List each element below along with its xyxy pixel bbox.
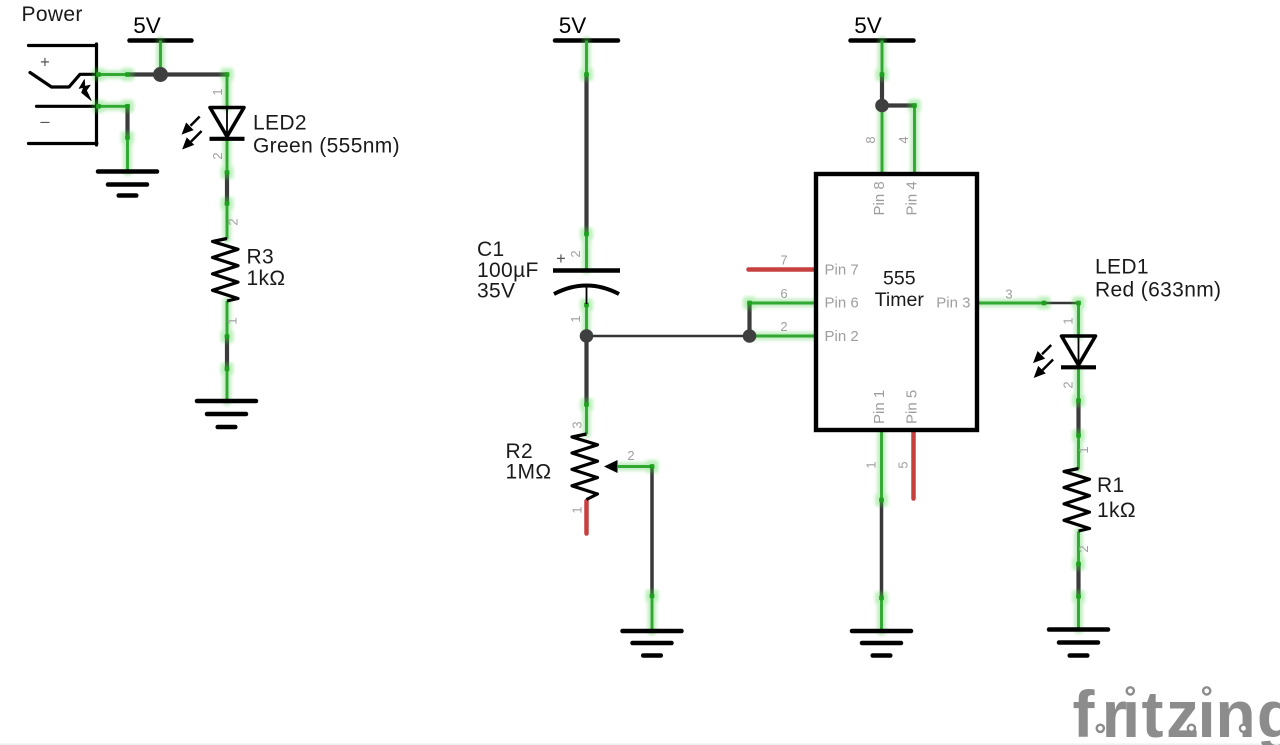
svg-text:4: 4 (896, 136, 911, 143)
svg-text:6: 6 (780, 286, 787, 301)
svg-text:LED1: LED1 (1095, 256, 1149, 279)
svg-text:2: 2 (226, 218, 241, 225)
svg-text:–: – (40, 113, 50, 131)
svg-text:8: 8 (863, 136, 878, 143)
svg-text:1kΩ: 1kΩ (247, 267, 286, 290)
svg-text:5V: 5V (559, 13, 587, 38)
svg-text:Red (633nm): Red (633nm) (1095, 279, 1221, 302)
svg-text:5V: 5V (133, 13, 161, 38)
svg-text:Timer: Timer (875, 289, 925, 311)
svg-text:5: 5 (896, 461, 911, 468)
svg-text:1: 1 (1076, 446, 1091, 453)
svg-text:Pin 1: Pin 1 (871, 390, 888, 424)
svg-text:Green (555nm): Green (555nm) (253, 135, 400, 158)
svg-text:f: f (1073, 677, 1096, 745)
svg-text:R1: R1 (1097, 474, 1125, 497)
svg-text:R3: R3 (247, 246, 275, 269)
svg-text:+: + (556, 250, 566, 268)
svg-text:Power: Power (22, 3, 83, 26)
svg-text:Pin 3: Pin 3 (936, 295, 970, 312)
svg-text:35V: 35V (477, 280, 515, 303)
svg-text:1: 1 (568, 315, 583, 322)
svg-text:2: 2 (780, 319, 787, 334)
svg-text:2: 2 (1061, 381, 1076, 388)
svg-text:555: 555 (883, 268, 916, 290)
svg-text:Pin 6: Pin 6 (825, 295, 859, 312)
svg-text:2: 2 (568, 250, 583, 257)
svg-text:5V: 5V (854, 13, 882, 38)
svg-text:3: 3 (570, 421, 585, 428)
svg-text:LED2: LED2 (253, 112, 307, 135)
svg-text:z: z (1166, 677, 1199, 745)
svg-text:Pin 8: Pin 8 (871, 181, 888, 215)
svg-text:1: 1 (1061, 317, 1076, 324)
svg-text:7: 7 (780, 253, 787, 268)
svg-text:1: 1 (225, 317, 240, 324)
svg-text:3: 3 (1005, 287, 1012, 302)
svg-text:Pin 7: Pin 7 (825, 262, 859, 279)
svg-text:1: 1 (864, 461, 879, 468)
svg-text:2: 2 (1076, 545, 1091, 552)
svg-text:1kΩ: 1kΩ (1097, 499, 1136, 522)
svg-text:1: 1 (210, 88, 225, 95)
svg-text:1MΩ: 1MΩ (506, 461, 552, 484)
svg-text:n: n (1215, 677, 1255, 745)
svg-text:C1: C1 (477, 238, 505, 261)
svg-text:Pin 5: Pin 5 (904, 390, 921, 424)
svg-text:Pin 4: Pin 4 (904, 181, 921, 215)
svg-text:+: + (40, 54, 50, 72)
svg-text:t: t (1142, 677, 1164, 745)
svg-text:2: 2 (210, 152, 225, 159)
svg-text:2: 2 (627, 448, 634, 463)
svg-text:1: 1 (570, 506, 585, 513)
svg-text:g: g (1257, 677, 1280, 745)
svg-text:Pin 2: Pin 2 (825, 328, 859, 345)
